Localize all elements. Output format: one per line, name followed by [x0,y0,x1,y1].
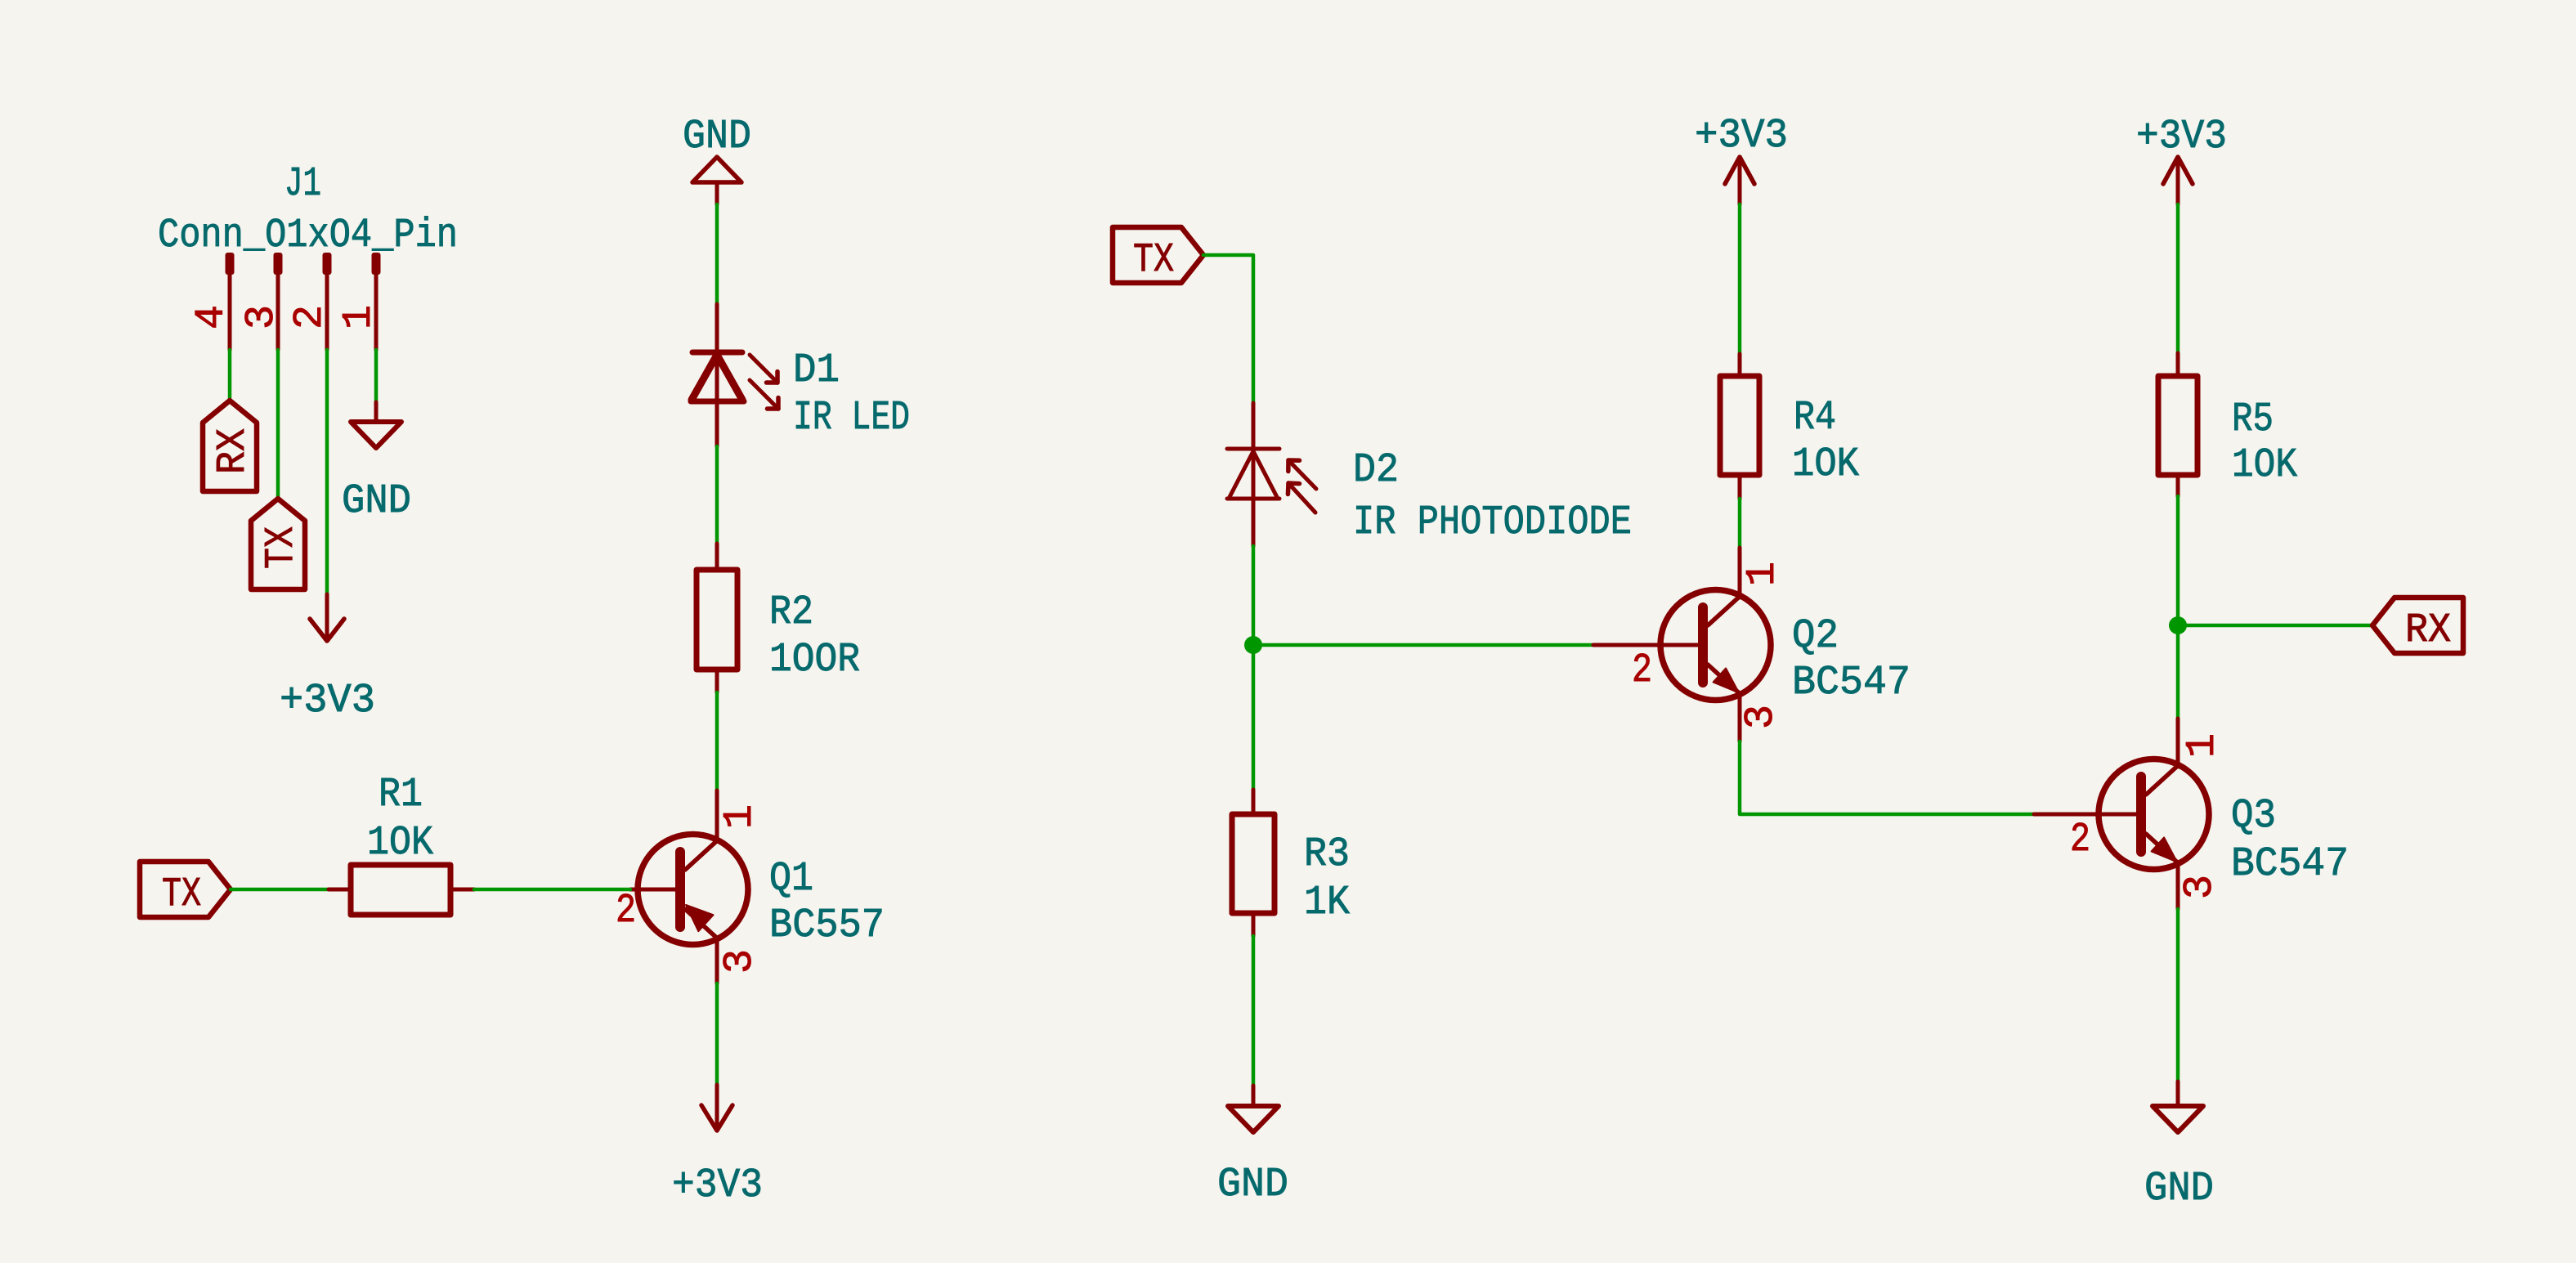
svg-text:1K: 1K [1304,880,1350,926]
Q3 collector pin [2176,719,2180,767]
J1 pin 2 lead [325,274,329,350]
power +3V3 down arrow (J1 pin 2) [310,594,344,641]
wire J1 pin1 to GND [374,350,379,402]
ground label GND (J1 pin 1) [342,478,411,525]
svg-text:R3: R3 [1304,831,1350,878]
global label TX (to R1) [140,862,231,918]
global label TX (to D2) [1113,227,1203,284]
power +3V3 down arrow (Q1 emitter) [701,1085,732,1131]
ground label GND (top of D1) [683,114,751,160]
J1 pin number 4 [189,305,235,329]
svg-text:BC547: BC547 [2231,841,2349,888]
svg-text:TX: TX [162,871,201,918]
transistor Q1 BC557 [638,835,748,945]
svg-text:1: 1 [1740,562,1786,586]
ground symbol (R3) [1228,1086,1279,1132]
svg-text:3: 3 [239,305,285,329]
wire R2 to Q1 collector [715,692,719,790]
Q3 pin number 1 [2180,733,2226,758]
reference R3 [1304,831,1350,878]
transistor Q3 BC547 [2099,759,2209,870]
svg-text:IR LED: IR LED [793,395,910,441]
power label +3V3 (J1 pin 2) [280,678,375,724]
svg-text:1: 1 [717,804,764,829]
svg-text:IR PHOTODIODE: IR PHOTODIODE [1353,499,1632,546]
svg-text:1: 1 [2180,733,2226,758]
svg-text:3: 3 [717,949,764,974]
wire R1 to Q1 base [450,888,630,892]
ground symbol (Q3) [2153,1082,2203,1132]
svg-text:Q2: Q2 [1792,613,1839,660]
svg-text:+3V3: +3V3 [1695,113,1788,159]
wire +3V3 to R5 [2176,204,2180,353]
D1 emitted light arrows [750,355,778,409]
junction node D2/R3/Q2 [1244,636,1262,654]
wire +3V3 to R4 [1738,204,1742,354]
svg-text:2: 2 [616,888,636,934]
wire R5 to Q3 collector and RX [2176,496,2180,719]
svg-text:1: 1 [336,305,383,329]
svg-text:GND: GND [2144,1166,2214,1212]
ground label GND (R3) [1217,1162,1288,1208]
wire J1 pin3 to TX label [276,350,280,499]
svg-text:1OK: 1OK [2232,442,2297,489]
J1 pin 1 lead [374,274,379,350]
svg-text:2: 2 [287,305,334,329]
connector J1 Conn_01x04_Pin body pads [226,253,381,275]
svg-text:GND: GND [342,478,411,525]
svg-text:R4: R4 [1794,395,1836,441]
svg-text:TX: TX [258,526,305,569]
resistor R5 [2158,353,2197,496]
ground symbol above D1 (flipped triangle) [692,157,741,204]
J1 pin number 1 [336,305,383,329]
wire J1 pin2 to +3V3 [325,350,329,594]
wire TX to R1 [231,888,351,892]
svg-text:R1: R1 [379,772,423,818]
wire TX to D2 cathode [1203,255,1253,403]
svg-text:J1: J1 [284,161,321,208]
power +3V3 up arrow (R4) [1725,157,1754,204]
diode D2 IR PHOTODIODE [1227,403,1279,546]
wire GND to D1 cathode [715,204,719,304]
svg-text:+3V3: +3V3 [2136,114,2227,160]
power +3V3 up arrow (R5) [2163,157,2193,204]
D2 received light arrows [1288,460,1316,513]
value 100R [769,637,860,683]
diode D1 IR LED [691,304,744,446]
wire D1 anode to R2 [715,446,719,544]
transistor Q2 BC547 [1660,590,1771,701]
svg-text:Conn_O1xO4_Pin: Conn_O1xO4_Pin [158,213,458,259]
power label +3V3 (R4) [1695,113,1788,159]
J1 pin 4 lead [228,274,232,350]
svg-text:2: 2 [2070,817,2090,863]
value BC547 (Q2) [1792,660,1911,706]
wire Q2 emitter to Q3 base [1740,694,2034,814]
resistor R1 [351,865,450,915]
value IR LED [793,395,910,441]
svg-text:Q1: Q1 [769,856,813,902]
svg-text:R2: R2 [769,589,813,636]
Q1 collector pin [715,790,719,841]
svg-text:RX: RX [210,428,257,474]
svg-text:Q3: Q3 [2231,793,2276,840]
svg-text:BC547: BC547 [1792,660,1911,706]
Q2 pin number 3 [1738,705,1785,729]
svg-text:1OOR: 1OOR [769,637,860,683]
svg-text:RX: RX [2405,607,2451,654]
svg-text:R5: R5 [2232,396,2274,443]
global label RX (J1 pin 4) [203,401,257,491]
J1 pin number 2 [287,305,334,329]
Q2 pin number 2 [1632,647,1652,694]
reference J1 [284,161,321,208]
Q1 pin number 1 [717,804,764,829]
Q3 pin number 3 [2177,875,2224,899]
svg-text:BC557: BC557 [769,902,885,949]
svg-text:1OK: 1OK [1792,441,1859,488]
svg-text:2: 2 [1632,647,1652,694]
value IR PHOTODIODE [1353,499,1632,546]
reference D2 [1353,447,1399,494]
svg-text:D2: D2 [1353,447,1399,494]
wire junction to Q2 base [1253,643,1593,647]
svg-text:3: 3 [1738,705,1785,729]
reference Q2 [1792,613,1839,660]
svg-text:+3V3: +3V3 [672,1162,763,1209]
ground symbol (J1 pin 1) [351,402,401,448]
wire R3 to GND [1252,936,1256,1086]
wire Q3 emitter to GND [2176,863,2180,1082]
Q1 pin number 2 [616,888,636,934]
reference D1 [793,347,840,394]
junction node RX/R5/Q3 [2169,616,2187,634]
value Conn_01x04_Pin [158,213,458,259]
global label RX (output) [2372,598,2463,654]
value BC557 [769,902,885,949]
J1 pin 3 lead [276,274,280,350]
svg-text:3: 3 [2177,875,2224,899]
value 1K [1304,880,1350,926]
reference R5 [2232,396,2274,443]
Q1 base pin [630,888,681,892]
value BC547 (Q3) [2231,841,2349,888]
ground label GND (Q3) [2144,1166,2214,1212]
reference Q3 [2231,793,2276,840]
svg-text:GND: GND [683,114,751,160]
reference R2 [769,589,813,636]
reference R1 [379,772,423,818]
Q2 collector pin [1738,548,1742,598]
Q3 base pin [2034,813,2142,817]
wire R4 to Q2 collector [1738,499,1742,548]
resistor R3 [1232,790,1275,936]
Q2 pin number 1 [1740,562,1786,586]
wire junction to RX label [2178,624,2372,628]
wire D2 anode to R3 and Q2 base [1252,546,1256,790]
Q3 pin number 2 [2070,817,2090,863]
global label TX (J1 pin 3) [251,499,305,589]
resistor R2 [697,544,737,692]
svg-text:1OK: 1OK [367,820,433,867]
svg-text:GND: GND [1217,1162,1288,1208]
reference Q1 [769,856,813,902]
wire J1 pin4 to RX label [228,350,232,401]
value 10K (R5) [2232,442,2297,489]
value 10K (R1) [367,820,433,867]
svg-text:4: 4 [189,305,235,329]
svg-text:+3V3: +3V3 [280,678,375,724]
wire Q1 emitter to +3V3 [715,938,719,1085]
power label +3V3 (R5) [2136,114,2227,160]
resistor R4 [1720,354,1759,499]
reference R4 [1794,395,1836,441]
power label +3V3 (bottom left) [672,1162,763,1209]
Q2 base pin [1593,643,1704,647]
svg-text:D1: D1 [793,347,840,394]
svg-text:TX: TX [1133,237,1174,284]
Q1 pin number 3 [717,949,764,974]
J1 pin number 3 [239,305,285,329]
value 10K (R4) [1792,441,1859,488]
